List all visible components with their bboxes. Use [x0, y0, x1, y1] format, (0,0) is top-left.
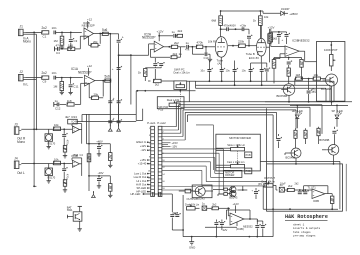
- svg-text:J3: J3: [14, 122, 18, 126]
- wire Q2 base left: [294, 79, 296, 85]
- label Slow pot: [227, 143, 245, 147]
- svg-text:+15V: +15V: [140, 158, 147, 162]
- resistor R9 2k2 top: [176, 29, 183, 38]
- wire Q3 base: [285, 153, 290, 155]
- ground left of C4: [55, 47, 58, 52]
- wire nest v3: [0, 0, 1, 1]
- resistor R17 100k top right: [264, 15, 269, 19]
- wire IC2A output: [164, 46, 172, 48]
- wire c39 join bus: [182, 229, 184, 231]
- capacitor C29 47u: [307, 78, 317, 102]
- wire Q6 out: [237, 186, 247, 191]
- wire IC1A feedback drop: [102, 81, 104, 97]
- svg-text:+15-40: +15-40: [138, 162, 147, 166]
- capacitor C24 elco pair: [153, 58, 164, 68]
- node out R node: [63, 128, 65, 130]
- wire IC6B feedback: [304, 186, 328, 194]
- ground left of C12: [54, 102, 57, 107]
- wire nest v2: [0, 0, 1, 1]
- resistor R36 10k: [53, 123, 61, 131]
- wire +12V branch right: [159, 35, 173, 37]
- resistor R29: [317, 127, 320, 144]
- resistor R10 2k2 feedback: [150, 47, 182, 59]
- wire tube B plate up: [260, 25, 262, 38]
- wire IC1B inverting leg: [80, 36, 84, 49]
- label +40V: [96, 140, 103, 144]
- svg-text:+12: +12: [87, 18, 92, 22]
- wire nest right v5: [0, 0, 1, 1]
- wire IC5A feedback: [72, 124, 82, 130]
- label Q6: [229, 195, 238, 199]
- resistor R30 2k2: [284, 184, 312, 192]
- svg-text:(Pin 1,7,8): (Pin 1,7,8): [258, 183, 269, 186]
- wire bus to output2 bus: [272, 209, 274, 236]
- capacitor C28: [287, 58, 293, 68]
- wire Q4 emitter: [333, 155, 335, 165]
- label P-out1 P-out2: [147, 121, 166, 125]
- label sheet 1: [293, 222, 305, 226]
- potentiometer VR3 Slow: [231, 145, 245, 151]
- capacitor C35 1u: [202, 202, 207, 211]
- node out L node: [63, 163, 65, 165]
- svg-text:C11: C11: [73, 84, 79, 88]
- wire Q2 collector: [288, 82, 290, 84]
- svg-text:10k: 10k: [54, 157, 59, 161]
- svg-text:10k: 10k: [264, 15, 269, 19]
- svg-text:10u: 10u: [200, 69, 205, 72]
- label IC6B: [313, 199, 319, 203]
- resistor R19 1k: [138, 67, 155, 81]
- resistor R18 cathode B: [266, 29, 277, 62]
- node IC1B out: [99, 33, 101, 35]
- connector column 1: [151, 126, 155, 196]
- label Q3 BC546B: [286, 155, 296, 159]
- svg-text:BDX53B: BDX53B: [277, 94, 288, 98]
- capacitor C9 2u2: [41, 71, 49, 83]
- svg-text:1k: 1k: [138, 71, 142, 75]
- connector J1 input jack A: [19, 29, 26, 36]
- capacitor C7 pair row1: [108, 97, 122, 103]
- svg-text:BC546B: BC546B: [321, 87, 332, 91]
- svg-text:Dual x 10k Lin: Dual x 10k Lin: [174, 70, 191, 74]
- wire C10 to IC1A: [56, 77, 83, 79]
- svg-text:-12V: -12V: [141, 148, 147, 152]
- capacitor C25 10u: [277, 32, 284, 44]
- svg-text:5u6: 5u6: [105, 75, 111, 79]
- svg-text:IC4B: IC4B: [72, 154, 78, 158]
- node ch1 junction: [227, 207, 230, 215]
- wire fsw bus: [136, 90, 195, 92]
- svg-text:P-out2: P-out2: [157, 121, 166, 125]
- ground R41: [108, 194, 112, 198]
- capacitor C11 to ground: [69, 78, 79, 91]
- svg-text:1u: 1u: [202, 202, 205, 206]
- svg-text:C4: C4: [56, 51, 60, 55]
- ground Q10: [47, 179, 51, 183]
- connector J4 output jack L: [14, 161, 21, 169]
- capacitor C34 elco pair ch2: [252, 188, 260, 199]
- svg-text:MOTOR DRIVER: MOTOR DRIVER: [229, 136, 251, 140]
- label HP-LED row: [131, 192, 152, 196]
- svg-text:inserts & outputs: inserts & outputs: [293, 226, 321, 230]
- wire long bus d: [183, 110, 296, 129]
- transistor Q2 BDX53: [281, 84, 295, 96]
- node IC2A out: [168, 46, 170, 48]
- svg-text:BD243: BD243: [229, 195, 238, 199]
- transistor Q8 fet: [75, 214, 80, 221]
- svg-text:-12V: -12V: [222, 228, 228, 232]
- svg-text:Low L Out: Low L Out: [134, 172, 146, 176]
- node rail A mid: [109, 80, 111, 100]
- wire mute row: [77, 115, 136, 122]
- wire ch2 left leg: [262, 186, 264, 209]
- svg-text:1k8: 1k8: [67, 99, 72, 103]
- wire bus gnd3: [196, 87, 327, 89]
- svg-text:+40V: +40V: [96, 140, 103, 144]
- wire long bus a: [176, 101, 334, 103]
- svg-text:470u: 470u: [66, 174, 70, 180]
- svg-text:10k: 10k: [54, 123, 59, 127]
- node rail B tap: [118, 54, 120, 56]
- wire rail B vertical: [118, 43, 120, 126]
- label -40V: [98, 171, 104, 175]
- svg-text:+12V: +12V: [268, 25, 275, 29]
- label Dual 10k Lin ch1: [185, 202, 200, 206]
- wire IC5B down: [81, 164, 83, 176]
- ground R39: [63, 188, 67, 192]
- capacitor C31: [332, 127, 338, 145]
- label Q4 BC546B: [319, 138, 329, 142]
- transistor Q5 regulator: [193, 186, 205, 196]
- resistor R41: [109, 184, 112, 194]
- capacitor C16 grid: [204, 47, 209, 60]
- svg-text:BC546B: BC546B: [319, 138, 329, 142]
- resistor R8 1k8: [67, 99, 81, 106]
- capacitor C3 to ground: [69, 32, 78, 45]
- svg-text:+: +: [122, 36, 124, 40]
- wire driver bus2: [290, 105, 348, 107]
- svg-text:Effect In: Effect In: [136, 140, 146, 144]
- capacitor C12 47u: [55, 99, 67, 110]
- resistor R6 1M: [53, 78, 63, 91]
- resistor R42 on rail: [87, 154, 91, 162]
- svg-text:2k2: 2k2: [178, 29, 183, 33]
- op-amp IC2A label: [142, 32, 156, 39]
- wire output2 bus: [263, 208, 338, 210]
- transistor Q3 BC546: [289, 148, 301, 158]
- resistor R13 4k7: [65, 115, 77, 124]
- svg-text:NE5532: NE5532: [299, 39, 310, 43]
- svg-text:10uF: 10uF: [280, 182, 286, 185]
- svg-text:+: +: [112, 67, 114, 71]
- label IN A Mono: [23, 36, 31, 43]
- label OUTPUT ch2: [264, 176, 275, 180]
- resistor R5 20k: [84, 36, 100, 47]
- resistor R33: [213, 188, 227, 191]
- wire nest right v4: [0, 0, 1, 1]
- svg-text:1k: 1k: [253, 19, 257, 23]
- transistor Q7 pair: [228, 190, 236, 196]
- wire IC1A inverting leg: [81, 83, 85, 104]
- op-amp IC1B: [84, 28, 94, 39]
- label connector pin numbers: [148, 128, 166, 193]
- ground R37: [63, 154, 67, 158]
- node J3 label: [14, 122, 18, 126]
- ground GND main: [189, 237, 195, 250]
- op-amp IC3B: [285, 46, 299, 57]
- wire vertical bus from jack A sleeve: [35, 34, 37, 128]
- svg-text:J2: J2: [20, 70, 24, 74]
- wire vertical bus from jack A: [33, 32, 35, 186]
- capacitor C33 pair: [298, 189, 309, 194]
- wire grid bias loop: [192, 47, 204, 54]
- box footswitch: [73, 212, 82, 221]
- svg-text:2k2: 2k2: [173, 52, 178, 56]
- capacitor C41: [62, 164, 69, 181]
- wire bus left stub: [195, 81, 197, 88]
- resistor R14 6k8 plate A: [211, 11, 222, 29]
- resistor R21: [269, 32, 273, 47]
- box speed pot block: [317, 42, 345, 102]
- resistor R2 1M: [53, 32, 63, 45]
- svg-text:+: +: [113, 97, 115, 101]
- wire J3 to buffer: [21, 128, 72, 130]
- svg-text:1M: 1M: [53, 39, 58, 43]
- svg-text:H&K Rotosphere: H&K Rotosphere: [285, 214, 328, 220]
- wire plate node to tube A: [220, 29, 222, 37]
- svg-text:1M: 1M: [53, 84, 58, 88]
- label BC546B Q1: [321, 87, 332, 91]
- svg-text:LED: LED: [338, 109, 343, 113]
- resistor R38 10k: [53, 157, 61, 164]
- wire IC1B output: [94, 33, 111, 35]
- wire second rail: [86, 114, 88, 144]
- label pin text ch2: [258, 182, 299, 185]
- wire IC5B feedback: [72, 158, 82, 164]
- ground below R6: [60, 91, 64, 95]
- wire C2 to opamp: [56, 31, 82, 33]
- svg-text:(A): (A): [218, 62, 222, 66]
- power +12V IC2A: [157, 29, 164, 41]
- svg-text:Fast x 100k Lin: Fast x 100k Lin: [227, 160, 245, 164]
- transistor Q1: [324, 74, 338, 86]
- ground below C11: [68, 91, 72, 95]
- capacitor C4 47u: [56, 44, 68, 55]
- label Q9: [48, 141, 84, 157]
- wire fsw verticals: [136, 91, 143, 121]
- svg-text:Dual 10k Lin: Dual 10k Lin: [185, 202, 200, 206]
- potentiometer VR2: [169, 101, 180, 107]
- capacitor C6 10u: [117, 34, 124, 42]
- svg-text:10u: 10u: [242, 69, 247, 72]
- svg-text:+12V: +12V: [233, 202, 240, 206]
- node J2 label: [20, 70, 24, 74]
- svg-text:10u: 10u: [226, 69, 231, 72]
- label Dual pot 2: [167, 98, 180, 102]
- label SM FSW PCB: [158, 106, 168, 111]
- diode D1 1N4007: [263, 8, 290, 16]
- wire Q3 emitter: [295, 158, 297, 165]
- power +12V right: [268, 25, 275, 29]
- transistor Q9 mute fet: [45, 129, 53, 144]
- svg-text:+12V: +12V: [140, 144, 147, 148]
- svg-text:NE5532P: NE5532P: [78, 70, 92, 74]
- svg-text:1u: 1u: [172, 30, 176, 34]
- svg-text:J1: J1: [20, 25, 24, 29]
- resistor R40: [109, 153, 112, 164]
- svg-text:pre-amp stages: pre-amp stages: [293, 235, 316, 238]
- svg-text:C3: C3: [74, 39, 78, 43]
- svg-text:ECC 83: ECC 83: [249, 56, 259, 60]
- resistor R35 2k2: [207, 203, 230, 210]
- capacitor C14 100n: [172, 30, 176, 38]
- wire J1 sleeve run: [23, 33, 36, 35]
- capacitor C19 elco: [220, 68, 226, 82]
- wire left rail 40V: [88, 114, 90, 191]
- svg-text:10n: 10n: [52, 71, 57, 75]
- tube V1A: [215, 37, 227, 58]
- svg-text:Out L: Out L: [17, 171, 25, 175]
- wire right edge drop: [0, 0, 1, 1]
- wire fsw top: [78, 206, 82, 211]
- wire J4 to buffer: [21, 163, 72, 165]
- wire ch1 chain: [195, 207, 199, 209]
- svg-text:470u: 470u: [66, 140, 70, 146]
- svg-text:1u: 1u: [55, 99, 59, 103]
- wire connector top-right runs: [0, 0, 1, 1]
- resistor R31 4k7: [331, 194, 334, 210]
- wire tube B cathode: [251, 56, 262, 63]
- svg-text:P-out1: P-out1: [147, 121, 156, 125]
- node input node B: [61, 77, 72, 79]
- wire IC3B in legs: [271, 47, 285, 59]
- box regulator: [192, 185, 212, 198]
- ground below R2: [60, 45, 64, 49]
- label Out L: [17, 171, 25, 175]
- wire bus verticals left: [162, 102, 188, 140]
- svg-text:100K POT: 100K POT: [324, 48, 338, 52]
- label 470n 400V: [224, 23, 247, 27]
- wire IC3B out: [299, 51, 316, 62]
- svg-text:GND: GND: [189, 245, 195, 249]
- wire IC5A down: [81, 130, 83, 144]
- wire slow pot leads: [216, 148, 231, 150]
- wire IC1A output: [95, 80, 110, 82]
- capacitor C18 470n: [229, 27, 249, 31]
- wire output2 inner top: [260, 161, 340, 209]
- svg-text:+12: +12: [87, 64, 92, 68]
- box MOTOR DRIVER inner: [224, 170, 242, 177]
- capacitor C10 10n: [52, 71, 57, 79]
- svg-text:NE5532: NE5532: [243, 224, 253, 228]
- label connector right pins: [162, 141, 178, 149]
- label Dual 10k Lin ch2: [262, 180, 276, 184]
- wire tube A cathode down: [220, 57, 222, 67]
- node J3 crossings: [33, 128, 37, 130]
- op-amp IC1B label: [82, 21, 95, 28]
- capacitor C37 pair out: [255, 219, 266, 237]
- svg-text:IC6B: IC6B: [313, 199, 319, 203]
- potentiometer VR4 Fast: [231, 162, 245, 168]
- plug P-out2: [116, 126, 121, 132]
- ground R40: [108, 164, 112, 168]
- capacitor C43 elco: [97, 176, 103, 188]
- capacitor C23 elco: [260, 63, 266, 85]
- potentiometer VR5: [330, 54, 336, 65]
- wire feed to output2: [266, 108, 268, 164]
- resistor R23: [287, 68, 290, 83]
- op-amp IC2A: [154, 41, 163, 52]
- svg-text:SP-LED: SP-LED: [137, 186, 147, 190]
- svg-text:470n/400V: 470n/400V: [224, 23, 237, 27]
- wire long bus f: [187, 115, 273, 209]
- svg-text:2k2: 2k2: [174, 41, 179, 45]
- node input node A: [61, 32, 72, 34]
- svg-text:2k2: 2k2: [212, 203, 217, 207]
- capacitor C22 elco: [242, 63, 254, 81]
- capacitor C40: [62, 129, 69, 146]
- connector J2 input jack B: [19, 74, 26, 81]
- svg-text:47k: 47k: [185, 47, 190, 51]
- label Dual pot 1: [174, 70, 191, 74]
- power +12V IC1B: [87, 18, 92, 29]
- node J1 label: [20, 25, 24, 29]
- label Tube B: [246, 52, 259, 60]
- svg-text:-15V: -15V: [172, 145, 178, 149]
- resistor R16 6k8 plate B: [253, 10, 262, 38]
- tube V1B: [257, 38, 267, 56]
- wire -40V run: [88, 175, 110, 177]
- wire stub to C6: [110, 33, 118, 35]
- wire -40V drop: [109, 176, 111, 184]
- wire bus gnd2: [196, 84, 331, 86]
- wire rail A vertical: [109, 34, 111, 127]
- svg-text:IC4A: IC4A: [72, 119, 78, 123]
- wire Q1 down: [331, 86, 333, 105]
- wire bus gnd1: [196, 80, 335, 82]
- label TL071: [308, 186, 317, 190]
- wire cap16 to ground: [208, 54, 210, 57]
- label SP LED: [332, 109, 343, 113]
- wire long bus b: [179, 105, 323, 134]
- label IN L: [23, 83, 29, 87]
- svg-text:SW1: SW1: [67, 208, 73, 212]
- wire long bus c: [181, 107, 310, 127]
- svg-text:1N4007: 1N4007: [281, 8, 290, 11]
- resistor R32 base: [185, 189, 191, 193]
- wire mid tap to IC2A: [119, 54, 149, 56]
- wire bus right drops: [326, 81, 334, 102]
- wire pot1 down: [155, 69, 195, 102]
- capacitor C44 elco rail B: [112, 66, 122, 71]
- svg-text:+: +: [282, 38, 284, 42]
- svg-text:Hi R Out: Hi R Out: [136, 182, 147, 186]
- label OUTPUT ch1: [187, 197, 198, 201]
- transistor Q6 pair: [228, 186, 236, 192]
- resistor R39: [63, 172, 66, 188]
- resistor R15 220k: [228, 40, 249, 48]
- led LED1: [295, 105, 302, 128]
- node J4 crossing: [33, 163, 35, 165]
- wire connector weave runs: [162, 149, 267, 194]
- svg-text:BD243: BD243: [196, 197, 205, 201]
- wire IC6B out: [325, 193, 332, 195]
- wire Q4 base: [322, 149, 326, 151]
- svg-text:20k: 20k: [93, 92, 98, 96]
- op-amp IC5A: [73, 126, 80, 133]
- wire J2 tip to C9: [26, 77, 43, 79]
- box PCB 2: [245, 168, 252, 174]
